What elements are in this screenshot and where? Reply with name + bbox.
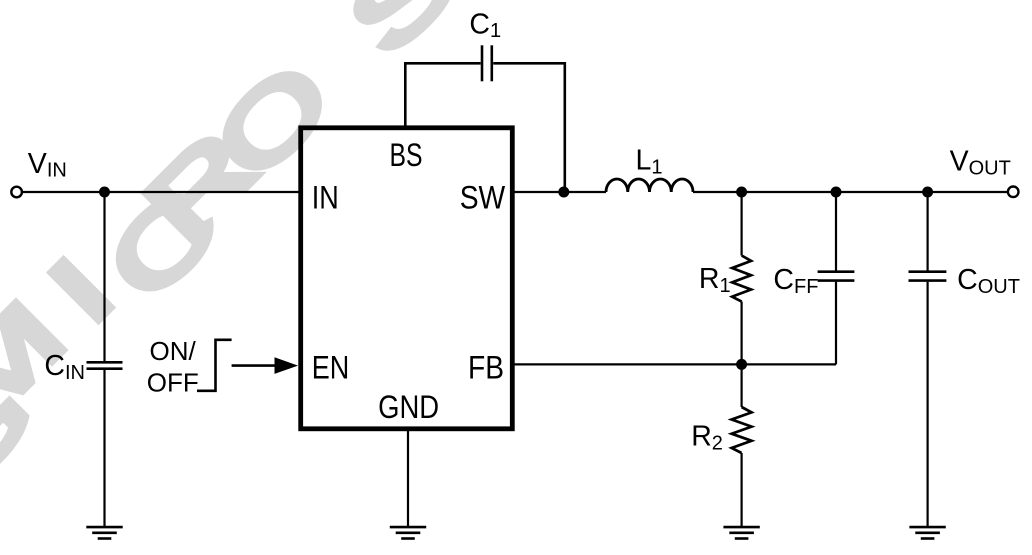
svg-text:R2: R2 [691,421,723,455]
svg-text:OFF: OFF [147,368,199,398]
svg-text:L1: L1 [636,145,663,179]
svg-text:COUT: COUT [957,264,1020,298]
svg-text:R1: R1 [699,263,731,297]
svg-text:C1: C1 [469,8,501,42]
svg-text:EN: EN [312,349,350,385]
svg-text:FB: FB [468,349,504,385]
svg-text:GND: GND [378,389,439,425]
svg-text:SW: SW [460,180,506,216]
svg-text:CFF: CFF [773,264,818,298]
svg-text:IN: IN [312,180,339,216]
svg-text:BS: BS [390,137,423,173]
svg-text:ON/: ON/ [150,336,197,366]
svg-text:VOUT: VOUT [950,146,1011,180]
svg-text:VIN: VIN [28,148,67,182]
